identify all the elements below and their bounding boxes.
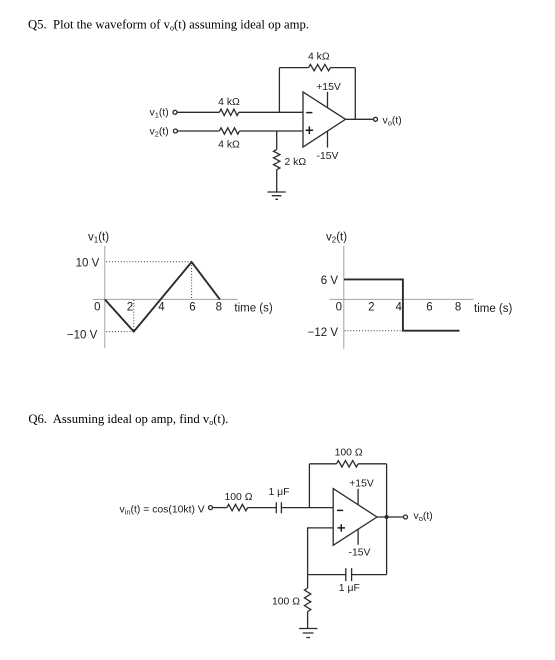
svg-text:100 Ω: 100 Ω [272,597,300,608]
U1 minus sign [306,112,312,114]
svg-text:8: 8 [216,302,222,314]
wire R2 to op-amp plus input [240,130,304,132]
wire v2 terminal to R2 [178,130,220,132]
U2 minus sign [337,509,343,511]
resistor R6 100 to ground [304,588,310,611]
svg-text:6: 6 [426,302,432,314]
wire v1 terminal to R1 [177,111,219,113]
junction dot output (Q6) [385,515,389,519]
capacitor C2 1uF (bottom feedback) [346,568,352,581]
op-amp U1 triangle [303,92,346,147]
svg-text:4 kΩ: 4 kΩ [218,97,240,108]
wire C1 to op-amp minus input [281,507,333,509]
wire bottom feedback right segment [352,574,387,576]
svg-text:-15V: -15V [349,548,371,559]
plot v1 y-axis [104,246,106,348]
svg-text:1 μF: 1 μF [339,583,360,594]
svg-text:4: 4 [158,302,165,314]
plot v2 dotted -12V level [345,330,403,332]
node output terminal (Q6) [404,515,408,519]
svg-text:time (s): time (s) [234,302,273,314]
svg-text:Q6. Assuming ideal op amp, fi: Q6. Assuming ideal op amp, find vo(t). [28,412,228,427]
wire 2k bottom [276,170,278,192]
resistor R3 2k [274,150,280,170]
svg-text:1 μF: 1 μF [269,487,290,498]
plot v2 x-axis [329,298,473,300]
capacitor C1 1uF (input series) [276,502,281,513]
svg-text:v2(t): v2(t) [326,232,347,245]
wire 100 Ohm top (Q6) [307,575,309,589]
resistor R4 100 (input series) [227,504,248,510]
wire output (Q6) [377,516,403,518]
svg-text:8: 8 [455,302,461,314]
svg-text:v1(t): v1(t) [88,232,109,245]
wire feedback tap vertical [278,68,280,113]
resistor R5 100 feedback [337,461,359,467]
node v1 input terminal [173,110,177,114]
wire -15V lead (Q6) [357,529,359,545]
wire 2k top [276,131,278,150]
svg-text:2 kΩ: 2 kΩ [285,157,307,168]
plot v1 dotted -10V level [106,331,134,333]
plot v1 dotted t=6 vertical [191,262,193,299]
svg-text:+15V: +15V [316,82,341,93]
svg-text:100 Ω: 100 Ω [225,492,253,503]
wire output [346,118,374,120]
wire plus input left and down [308,528,334,575]
svg-text:6: 6 [189,302,195,314]
svg-text:-15V: -15V [317,151,339,162]
wire feedback tap vertical (Q6) [308,464,310,508]
wire R1 to op-amp minus input [239,111,303,113]
wire R6 to ground [307,612,309,629]
svg-text:vin(t) = cos(10kt) V: vin(t) = cos(10kt) V [120,505,205,517]
svg-text:2: 2 [127,302,133,314]
wire +15V lead [327,92,329,108]
svg-text:4 kΩ: 4 kΩ [308,51,330,62]
node output terminal [374,117,378,121]
wire bottom feedback left segment [308,574,346,576]
svg-text:+15V: +15V [349,478,374,489]
svg-text:4: 4 [395,302,402,314]
svg-text:time (s): time (s) [474,303,513,315]
wire feedback top left (Q6) [309,463,336,465]
svg-text:vo(t): vo(t) [383,115,402,127]
svg-text:100 Ω: 100 Ω [335,448,363,459]
svg-text:0: 0 [94,302,100,314]
U2 plus sign [338,524,346,531]
op-amp U2 triangle [333,489,377,546]
svg-text:−12 V: −12 V [308,327,339,339]
svg-text:v2(t): v2(t) [150,126,169,138]
wire feedback right vertical to output [354,68,356,120]
wire R4 to C1 [248,507,277,509]
svg-text:4 kΩ: 4 kΩ [218,140,240,151]
wire feedback top right [330,67,355,69]
resistor R1 4k (v1 series) [219,109,238,115]
svg-text:vo(t): vo(t) [414,511,433,523]
resistor R2 4k (v2 series) [219,128,239,134]
svg-text:v1(t): v1(t) [150,107,169,119]
ground (Q5) [268,192,286,199]
plot v1 x-axis [93,298,238,300]
node vin terminal [209,506,213,510]
wire vin to R4 [213,507,227,509]
ground (Q6) [299,629,318,638]
wire feedback top right (Q6) [358,463,387,465]
wire +15V lead (Q6) [357,489,359,505]
plot v1 triangle waveform [105,262,220,332]
svg-text:Q5. Plot the waveform of vo(t: Q5. Plot the waveform of vo(t) assuming … [28,18,309,33]
svg-text:6 V: 6 V [321,275,339,287]
svg-text:2: 2 [368,302,374,314]
svg-text:−10 V: −10 V [67,329,98,341]
node v2 input terminal [173,129,177,133]
plot v1 dotted t=2 vertical [133,300,135,332]
plot v2 y-axis [343,246,345,349]
wire right vertical output to bottom feedback [386,464,388,575]
wire feedback top left [279,67,308,69]
svg-text:10 V: 10 V [76,257,100,269]
resistor Rf 4k feedback [309,64,331,70]
plot v1 dotted 10V level [106,261,191,263]
wire -15V lead [327,131,329,147]
svg-text:0: 0 [336,302,342,314]
plot v2 step waveform [344,279,460,330]
U1 plus sign [306,126,314,134]
